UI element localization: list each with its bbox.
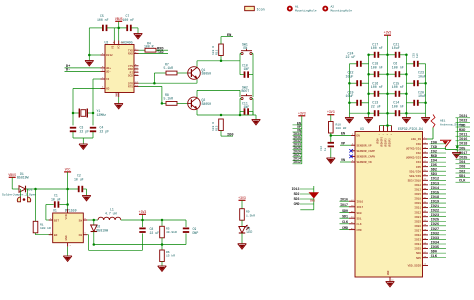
svg-text:IO13: IO13 [414, 189, 421, 192]
svg-text:XO: XO [106, 88, 110, 91]
label VN col [293, 128, 302, 132]
svg-text:S8050: S8050 [202, 102, 212, 106]
svg-text:RXD: RXD [431, 155, 437, 159]
power flag +3V3 bank [384, 31, 392, 55]
ground C7 [134, 34, 143, 39]
svg-text:IO12: IO12 [414, 184, 421, 187]
wire gnd rail out [94, 244, 186, 246]
svg-text:IO33: IO33 [414, 239, 421, 242]
junction XI xtal [92, 112, 95, 115]
svg-text:IO5: IO5 [431, 164, 437, 168]
svg-text:FB: FB [79, 234, 83, 237]
svg-text:TXD: TXD [157, 51, 164, 55]
U2 pin DTR [128, 81, 139, 86]
junction D2 [93, 219, 96, 222]
U3 pin IO15 [414, 191, 446, 196]
junction VCC [66, 188, 69, 191]
svg-text:RXD: RXD [459, 129, 465, 133]
capacitor C22 [346, 71, 369, 87]
U3 pin SD3/IO10 [408, 178, 446, 183]
U2 pin RI [130, 70, 139, 75]
svg-text:DCD: DCD [128, 75, 133, 78]
junction 3V3 out [141, 219, 144, 222]
svg-text:EN: EN [357, 135, 361, 138]
U3 pin CMD [340, 226, 362, 232]
svg-text:V3: V3 [112, 45, 115, 49]
svg-text:5: 5 [85, 232, 87, 235]
wire Q2 collector [197, 90, 240, 97]
svg-text:10uF: 10uF [392, 46, 400, 50]
label IO12 col [293, 160, 302, 164]
svg-text:22 pF: 22 pF [100, 130, 110, 134]
svg-text:IO18: IO18 [431, 196, 439, 200]
wire C7 to ground [137, 28, 139, 34]
U3 pin IO27 [414, 228, 446, 233]
label IO16 right [456, 138, 471, 142]
svg-text:GND: GND [310, 200, 315, 203]
svg-text:VDD3P3: VDD3P3 [385, 138, 388, 147]
wire XI [93, 79, 101, 125]
U3 pin VDD_SDIO [408, 263, 428, 268]
svg-text:1uF: 1uF [416, 53, 419, 58]
capacitor C14 [392, 101, 404, 117]
svg-text:VP: VP [341, 142, 345, 146]
svg-text:1: 1 [50, 217, 52, 220]
svg-text:U0RXD/IO3: U0RXD/IO3 [406, 156, 421, 160]
svg-text:IO26: IO26 [414, 225, 421, 228]
U3 pin U0RXD/IO3 [406, 155, 446, 160]
svg-text:12MHz: 12MHz [97, 113, 107, 117]
svg-text:SD0: SD0 [431, 251, 437, 255]
U3 pin SENSOR_VP [340, 142, 372, 147]
IC U3 ESP32-PICO-D4 body [355, 127, 423, 277]
capacitor C23 [406, 71, 426, 87]
U3 pin IO34 [414, 241, 446, 246]
svg-text:B5819W: B5819W [97, 229, 109, 233]
svg-text:CLK: CLK [431, 255, 438, 259]
ground U1 [63, 256, 72, 261]
svg-text:IO22: IO22 [459, 120, 467, 124]
svg-text:R1: R1 [40, 223, 44, 226]
power flag +3V3 out [139, 210, 147, 220]
svg-text:IO22: IO22 [414, 211, 421, 214]
svg-text:VDDA: VDDA [377, 138, 380, 144]
svg-text:SD3: SD3 [294, 197, 300, 201]
label IO22 right [456, 120, 471, 124]
svg-text:IO5: IO5 [459, 147, 465, 151]
svg-text:IO32: IO32 [414, 234, 421, 237]
ground antenna [452, 153, 461, 158]
svg-text:IO19: IO19 [431, 200, 439, 204]
label IO14 col [293, 157, 302, 161]
ground switches [252, 120, 261, 125]
capacitor C7 [123, 14, 135, 31]
svg-text:100 nF: 100 nF [371, 65, 383, 69]
wire EN net [331, 133, 351, 136]
U3 pin IO17 [340, 203, 364, 209]
svg-text:IO13: IO13 [292, 187, 300, 191]
svg-text:MP1559: MP1559 [65, 209, 77, 213]
junction cap bank [367, 54, 370, 115]
svg-text:SENSOR_CAPN: SENSOR_CAPN [357, 156, 376, 159]
U3 pin IO12 [414, 182, 446, 187]
svg-text:SD3: SD3 [431, 173, 437, 177]
svg-text:10k R: 10k R [211, 122, 215, 131]
U3 pin IO26 [414, 223, 446, 228]
U3 pin CLK [340, 220, 362, 226]
svg-text:10uF: 10uF [418, 94, 426, 98]
capacitor C11 [240, 101, 253, 115]
svg-text:22 pF: 22 pF [80, 130, 90, 134]
capacitor C12 [320, 136, 334, 159]
svg-text:IO15: IO15 [414, 193, 421, 196]
U2 pin RXD [128, 51, 139, 56]
svg-text:IO4: IO4 [459, 161, 465, 165]
label D- [65, 69, 101, 73]
svg-text:IO34: IO34 [431, 241, 439, 245]
antenna cone [440, 140, 451, 149]
label D+ [65, 65, 101, 69]
ground D3 [238, 244, 247, 249]
svg-text:IO18: IO18 [459, 143, 467, 147]
U3 pin IO23 [414, 214, 446, 219]
svg-text:LNA_IN: LNA_IN [411, 138, 421, 141]
capacitor C19 [346, 90, 369, 106]
capacitor C4 [90, 126, 109, 134]
U3 pin IO4 [416, 160, 446, 165]
U3 pin IO16 [340, 198, 364, 204]
svg-text:IO27: IO27 [414, 229, 421, 232]
label EN wire [341, 133, 345, 137]
resistor R4 [139, 41, 157, 52]
svg-text:IO0: IO0 [227, 133, 233, 137]
wire C5-C7 rail [89, 27, 138, 29]
capacitor C9 [183, 220, 199, 245]
power flag VBUS 2 [8, 173, 16, 189]
wire label column [301, 125, 303, 164]
svg-text:+3V3: +3V3 [384, 31, 392, 35]
svg-text:RTS: RTS [128, 86, 133, 89]
svg-text:10 uF: 10 uF [74, 177, 84, 181]
U3 pin SENSOR_VN [340, 159, 372, 164]
resistor R11 [211, 44, 223, 61]
svg-text:R232: R232 [106, 54, 113, 57]
svg-text:4: 4 [50, 232, 52, 235]
ground R6 [158, 266, 167, 271]
svg-text:IO18: IO18 [414, 198, 421, 201]
power flag +3V3 rc [327, 110, 335, 121]
solder jumper SJ1 [2, 189, 36, 202]
label IO0 [227, 133, 233, 137]
svg-text:SD2/IO9: SD2/IO9 [409, 174, 421, 178]
svg-text:UD-: UD- [106, 71, 111, 74]
capacitor C5 [97, 14, 109, 31]
junction antenna [456, 146, 459, 149]
svg-text:IO2: IO2 [431, 150, 437, 154]
label TXD right [456, 124, 471, 128]
svg-text:SD2: SD2 [294, 192, 300, 196]
label TXD [139, 51, 169, 55]
label IO26 col [293, 150, 302, 154]
ground V3 [85, 55, 94, 66]
junction R5 top [161, 219, 164, 222]
svg-text:EN: EN [54, 234, 58, 237]
antenna AE1 [427, 115, 464, 140]
svg-text:C12: C12 [320, 146, 323, 151]
resistor R6 [160, 245, 176, 267]
capacitor C3 [70, 126, 89, 134]
svg-text:Icon: Icon [257, 9, 265, 13]
ground C2 [82, 196, 91, 201]
resistor R10 [329, 122, 347, 134]
cap bank wires [349, 55, 425, 113]
svg-text:SD1: SD1 [357, 217, 362, 220]
wire 3v3 to U3 [380, 113, 392, 131]
svg-text:D-: D- [66, 69, 70, 73]
svg-text:SENSOR_CAPP: SENSOR_CAPP [357, 150, 376, 153]
mounting hole A2 [323, 5, 352, 12]
svg-text:IO11: IO11 [459, 134, 467, 138]
svg-text:IO16: IO16 [357, 200, 364, 203]
mounting hole A1 [288, 5, 317, 12]
svg-text:IO33: IO33 [431, 237, 439, 241]
svg-text:IO4: IO4 [431, 160, 437, 164]
svg-text:BST: BST [54, 219, 59, 222]
label IO32 col [293, 139, 302, 143]
svg-text:100 kR: 100 kR [40, 226, 51, 230]
switch SW2 BOOT [241, 85, 252, 99]
svg-text:10uF: 10uF [346, 94, 354, 98]
junction V3 [88, 54, 91, 57]
U3 pin LNA_IN [411, 136, 427, 141]
svg-text:IO19: IO19 [414, 202, 421, 205]
svg-text:IO0: IO0 [431, 141, 437, 145]
U3 pin IO13 [414, 187, 446, 192]
wire D3 gnd [241, 233, 243, 244]
label IO18 right [456, 143, 471, 147]
svg-text:R9: R9 [246, 211, 250, 214]
wire Q1 emitter [196, 79, 198, 83]
svg-text:VBUS: VBUS [115, 17, 123, 21]
svg-text:IO17: IO17 [459, 152, 467, 156]
label VP col [293, 125, 302, 129]
svg-text:SW: SW [79, 219, 83, 222]
svg-text:VCC: VCC [65, 167, 71, 171]
U3 pin SD1 [340, 215, 362, 221]
svg-text:1.5kR: 1.5kR [246, 213, 255, 217]
svg-text:SD1/IO8: SD1/IO8 [409, 169, 421, 173]
svg-text:100 nF: 100 nF [97, 18, 109, 22]
wire VCC down [67, 189, 69, 213]
U3 pin IO19 [414, 200, 446, 205]
label RXD right [456, 129, 471, 133]
label IO13 col2 [292, 187, 314, 191]
wire R8 to Q2 [177, 102, 188, 104]
ground cap bank [421, 113, 430, 123]
svg-text:SD2: SD2 [431, 169, 437, 173]
label IO33 col [293, 143, 302, 147]
svg-text:U2: U2 [105, 41, 109, 45]
svg-text:B5819W: B5819W [17, 175, 29, 179]
ground C12 [327, 158, 336, 163]
U3 pin IO33 [414, 237, 446, 242]
svg-text:IO12: IO12 [293, 160, 301, 164]
IC U2 CH340G body [105, 41, 135, 93]
svg-text:AE1: AE1 [440, 119, 446, 122]
U3 pin IO2 [416, 150, 446, 155]
U3 pin IO18 [414, 196, 446, 201]
svg-text:CLK: CLK [459, 180, 466, 184]
svg-text:IO23: IO23 [431, 214, 439, 218]
label CMD col2 [294, 202, 314, 206]
U3 pin IO0 [416, 141, 446, 146]
svg-text:VDD_SDIO: VDD_SDIO [408, 265, 422, 268]
U3 pin IO25 [414, 219, 446, 224]
svg-text:LED: LED [247, 230, 253, 234]
capacitor C8 [139, 220, 159, 245]
wire R1 [35, 189, 37, 221]
label IO17 right [456, 152, 471, 156]
junction EN rc [330, 134, 333, 137]
svg-text:10 uF: 10 uF [51, 197, 61, 201]
capacitor C2 [74, 174, 87, 196]
U3 pin SD2/IO9 [409, 173, 446, 178]
wire SW1 rails [240, 54, 253, 75]
U2 pin TXD [128, 48, 139, 53]
svg-text:VBUS: VBUS [8, 173, 16, 177]
svg-text:CLK: CLK [357, 223, 362, 226]
U3 pin U0TXD/IO1 [406, 146, 446, 151]
wire to ground sw [255, 115, 257, 120]
junction EN rail [220, 60, 223, 63]
resistor R5 [160, 220, 177, 245]
wire antenna rail [445, 118, 457, 153]
label IO35 col [293, 135, 302, 139]
svg-text:22 uF: 22 uF [346, 55, 356, 59]
power flag VBUS [115, 17, 123, 28]
label IO27 col [293, 153, 302, 157]
svg-text:VN: VN [341, 159, 345, 163]
svg-text:R12: R12 [216, 125, 219, 131]
svg-text:TXD: TXD [431, 146, 437, 150]
label IO5 right [456, 147, 471, 151]
svg-text:SD5: SD5 [416, 257, 421, 260]
svg-text:EN: EN [227, 34, 231, 38]
power flag +3V3 col [298, 111, 306, 125]
junction FB [93, 243, 96, 246]
U3 pin SENSOR_CAPN [349, 154, 375, 159]
capacitor C24 [346, 51, 369, 67]
svg-text:100 nF: 100 nF [392, 104, 404, 108]
capacitor C13 [371, 101, 381, 117]
capacitor C17 [371, 42, 383, 58]
capacitor C18 [371, 62, 383, 78]
svg-text:IO35: IO35 [431, 246, 439, 250]
svg-text:SENSOR_VP: SENSOR_VP [357, 144, 372, 147]
svg-text:+3V3: +3V3 [139, 210, 147, 214]
U2 pin CTS [128, 63, 139, 68]
label SD1 right [456, 175, 471, 179]
svg-text:VDDA3P3: VDDA3P3 [381, 136, 384, 147]
svg-text:GND: GND [65, 235, 68, 240]
label SD2 col2 [294, 192, 314, 196]
svg-text:+3V3: +3V3 [327, 110, 335, 114]
svg-text:IO21: IO21 [414, 207, 421, 210]
U2 pin XO [101, 86, 110, 91]
U3 pin IO21 [414, 205, 446, 210]
resistor R9 [240, 209, 256, 221]
power flag VCC [64, 167, 71, 189]
wire R1 to EN [36, 233, 53, 235]
svg-text:A2: A2 [331, 5, 335, 8]
svg-text:SENSOR_VN: SENSOR_VN [357, 161, 372, 164]
label IO25 col [293, 146, 302, 150]
IC U1 MP1559 body [53, 209, 84, 243]
svg-text:IO34: IO34 [414, 243, 421, 246]
label IO4 right [456, 161, 471, 165]
wire label column 2 [300, 186, 314, 210]
svg-text:SD3/IO10: SD3/IO10 [408, 178, 422, 182]
svg-text:RXD: RXD [128, 53, 133, 56]
svg-text:IO0: IO0 [416, 143, 421, 146]
svg-text:EN: EN [244, 46, 248, 50]
power flag +3V3 led [238, 196, 246, 209]
svg-text:10uF: 10uF [346, 74, 354, 78]
U2 pin D+ [101, 65, 112, 70]
wire Q2 emitter IO0 rail [197, 110, 256, 115]
capacitor C21 [392, 42, 400, 58]
svg-text:10k R: 10k R [211, 46, 215, 55]
svg-text:+3V3: +3V3 [238, 196, 246, 200]
diode D3 LED [239, 225, 253, 234]
U2 pin V3 [101, 52, 114, 57]
capacitor C1 [46, 194, 68, 208]
U3 pin SD5 [416, 255, 446, 260]
crystal Y1 [73, 109, 106, 118]
svg-text:SD0: SD0 [357, 212, 362, 215]
wire BST [46, 205, 53, 221]
label EN col [293, 121, 302, 125]
junction C1 [66, 203, 69, 206]
svg-text:SD1: SD1 [459, 175, 465, 179]
wire vcc rail h [36, 188, 79, 190]
svg-text:GND: GND [387, 270, 390, 275]
diode D1 [12, 172, 36, 193]
U2 pin D- [101, 68, 112, 73]
svg-text:2: 2 [70, 244, 72, 247]
U3 pin GND [387, 270, 394, 281]
resistor R1 [33, 221, 51, 233]
svg-text:IO15: IO15 [431, 191, 439, 195]
svg-text:5.1kR: 5.1kR [164, 97, 174, 101]
svg-text:100 nF: 100 nF [392, 65, 404, 69]
svg-text:U0TXD/IO1: U0TXD/IO1 [406, 147, 421, 151]
svg-text:C25: C25 [413, 53, 416, 58]
junction cap bank [405, 54, 408, 115]
svg-text:EN: EN [341, 133, 345, 137]
svg-text:R11: R11 [216, 49, 219, 55]
icon legend symbol [245, 6, 265, 12]
capacitor C15 [392, 81, 404, 97]
U3 top pin names [377, 133, 393, 147]
U3 pin IO22 [414, 210, 446, 215]
junction cap bank outer [348, 82, 427, 104]
label IO11 right [456, 134, 471, 138]
gnd arrow col2 [309, 193, 318, 203]
svg-text:IO32: IO32 [431, 232, 439, 236]
wire DTR [139, 73, 198, 83]
transistor Q1 [188, 67, 211, 80]
